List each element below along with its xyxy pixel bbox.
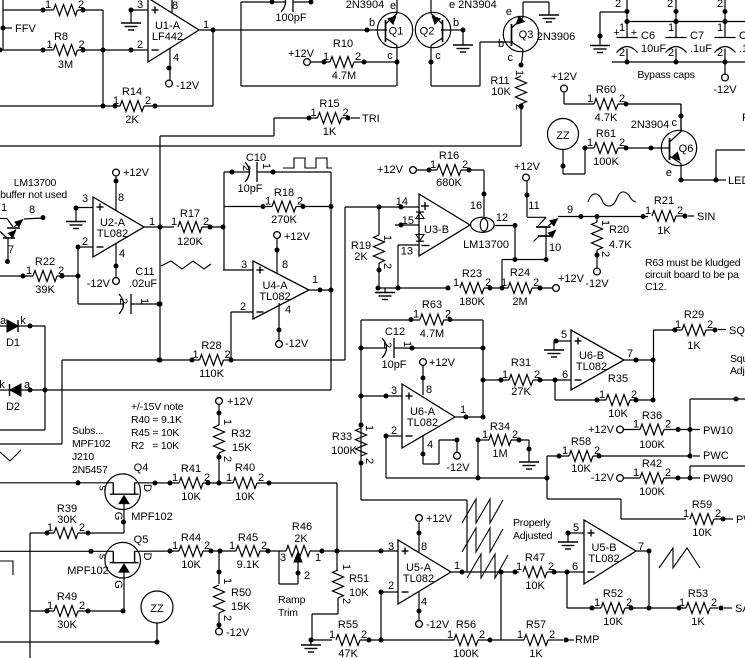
svg-text:2: 2 [615,0,621,10]
svg-text:2: 2 [137,39,143,51]
svg-text:4: 4 [119,248,125,260]
ground U1A [130,10,132,23]
svg-text:R10: R10 [333,38,353,50]
wire [224,206,272,208]
resistor R11 [516,76,527,104]
-12V terminal U5A [416,621,423,628]
svg-text:C11: C11 [135,266,154,278]
resistor R57 [524,635,548,646]
svg-text:R45 = 10K: R45 = 10K [131,427,179,439]
svg-text:1M: 1M [492,448,507,460]
wire U6A out [455,416,483,418]
svg-text:4: 4 [427,439,433,451]
svg-text:1K: 1K [529,648,543,658]
wire [431,85,480,87]
resistor R49 [54,606,78,617]
resistor R44 [179,546,203,557]
svg-text:R28: R28 [201,340,221,352]
svg-text:4: 4 [421,596,427,608]
svg-text:1K: 1K [691,616,705,628]
svg-text:2: 2 [363,458,375,464]
wire [203,482,233,484]
svg-text:180K: 180K [459,296,485,308]
wire [240,2,242,86]
bypass caps upper row stubs [626,0,628,38]
resistor R8 [54,45,78,56]
wire [311,61,331,63]
svg-text:a: a [0,315,7,327]
resistor R20 [592,222,603,250]
svg-text:R53: R53 [688,588,708,600]
svg-text:8: 8 [29,204,35,216]
wire node9 [558,216,648,218]
svg-text:Q6: Q6 [679,143,694,155]
svg-text:1: 1 [562,445,568,457]
svg-text:R36: R36 [642,410,662,422]
wire U5A out [451,571,519,573]
svg-text:3M: 3M [58,59,73,71]
-12V terminal [166,80,173,87]
resistor R32 [214,425,225,453]
svg-text:+12V: +12V [227,396,254,408]
svg-text:3: 3 [137,0,143,11]
wire [0,49,54,51]
resistor R22 [33,271,57,282]
svg-text:R46: R46 [292,521,312,533]
-12V terminal U4A [276,341,283,348]
resistor R42 [640,473,664,484]
svg-text:SIN: SIN [697,211,715,223]
svg-text:R23: R23 [462,268,482,280]
svg-text:R8: R8 [54,31,68,43]
svg-text:R20: R20 [609,224,629,236]
svg-text:.02uF: .02uF [129,278,157,290]
svg-text:7: 7 [8,244,14,256]
svg-text:120K: 120K [177,236,203,248]
svg-text:1: 1 [447,629,453,641]
diode D1 [0,325,7,327]
svg-text:c: c [435,50,441,62]
svg-text:2: 2 [388,580,394,592]
svg-text:2: 2 [240,165,252,171]
svg-text:100K: 100K [639,439,665,451]
wire [564,103,594,105]
wire PWC [547,455,569,457]
svg-text:1: 1 [381,235,393,241]
ZZ source 1 [548,119,579,150]
svg-text:1: 1 [45,0,51,11]
+12V terminal U2A [115,176,117,211]
svg-text:-12V: -12V [176,80,200,92]
svg-text:4: 4 [285,304,291,316]
svg-text:3: 3 [391,385,397,397]
svg-text:10K: 10K [692,527,712,539]
svg-text:b: b [369,17,375,29]
resistor R52 [601,603,625,614]
svg-text:1: 1 [1,202,7,214]
wire pin4 [418,591,420,621]
svg-text:SQR: SQR [729,325,745,337]
svg-text:R35: R35 [608,373,628,385]
svg-text:R24: R24 [510,267,530,279]
svg-text:Adjusted: Adjusted [513,530,553,542]
+12V terminal [304,59,311,66]
wire SQR [654,329,683,331]
svg-text:10pF: 10pF [237,183,262,195]
svg-text:2: 2 [381,342,393,348]
svg-text:R55: R55 [338,619,358,631]
svg-text:47K: 47K [338,648,358,658]
svg-text:2M: 2M [512,296,527,308]
sine glyph [588,192,636,206]
transistor Q5 JFET [105,542,141,578]
svg-text:1: 1 [363,425,375,431]
svg-text:C12: C12 [385,326,405,338]
svg-text:R40 = 9.1K: R40 = 9.1K [131,414,182,426]
diode internal 1 [416,211,424,213]
wire [202,226,224,228]
resistor R24 [508,283,532,294]
svg-text:2: 2 [479,629,485,641]
svg-text:-12V: -12V [226,627,250,639]
svg-text:R44: R44 [181,532,201,544]
resistor R46 trimmer [286,546,310,557]
wire [30,610,54,612]
svg-text:1: 1 [413,309,419,321]
wire TRI [274,117,318,119]
svg-text:680K: 680K [436,177,462,189]
op-amp U2-A [93,197,144,257]
svg-text:-12V: -12V [591,472,615,484]
wire PW90 [624,477,641,479]
svg-text:Q5: Q5 [134,534,149,546]
svg-text:2K: 2K [294,533,308,545]
glyph partial left [0,561,13,575]
svg-text:2: 2 [361,629,367,641]
svg-text:MPF102: MPF102 [131,511,173,523]
svg-text:2: 2 [355,51,361,63]
wire [478,439,489,441]
resistor R29 [682,325,706,336]
svg-text:Properly: Properly [513,517,551,529]
wire [0,550,113,552]
ground Q2 [462,30,464,45]
svg-text:6: 6 [572,561,578,573]
svg-text:9.1K: 9.1K [237,559,260,571]
svg-text:+12V: +12V [426,513,453,525]
transistor Q6 [661,130,696,165]
op-amp U5-A [398,540,451,604]
svg-text:U3-B: U3-B [424,224,449,236]
wire [62,359,200,361]
transistor Q2 [415,12,450,47]
resistor R15 [318,113,342,124]
wire R63 box [361,319,420,321]
svg-text:3: 3 [280,552,286,564]
wire pin5 [554,340,571,342]
resistor R19 [374,235,385,263]
svg-text:30K: 30K [57,619,77,631]
svg-text:2K: 2K [354,251,368,263]
svg-text:5: 5 [561,329,567,341]
svg-text:c: c [508,52,514,64]
wire SAW [710,607,718,609]
svg-text:2: 2 [240,301,246,313]
svg-text:2: 2 [549,629,555,641]
svg-text:10K: 10K [235,491,255,503]
svg-text:c: c [672,117,678,129]
resistor R63 [420,314,444,325]
capacitor C10 [224,171,250,173]
svg-text:2: 2 [707,319,713,331]
triangle glyph [161,261,211,269]
capacitor C7 [666,37,687,39]
wire pin3 [223,269,253,271]
wire pin4 [115,244,117,278]
svg-text:100pF: 100pF [275,12,306,24]
svg-text:2: 2 [665,467,671,479]
svg-text:100K: 100K [639,486,665,498]
node U1A output [211,28,216,33]
resistor R60 [594,99,618,110]
svg-text:2: 2 [221,456,233,462]
svg-text:2: 2 [79,522,85,534]
transistor Q4 JFET [105,474,141,510]
saw glyph [659,548,700,568]
svg-text:R61: R61 [596,128,616,140]
svg-text:R49: R49 [57,591,77,603]
ground rail U3B [378,287,448,289]
svg-text:100K: 100K [331,445,357,457]
+12V terminal R32 [216,398,223,405]
diode internal 2 [416,235,424,241]
svg-text:e 2N3904: e 2N3904 [449,0,497,11]
svg-text:11: 11 [528,200,539,212]
svg-text:-12V: -12V [585,278,609,290]
svg-text:10K: 10K [603,616,623,628]
svg-text:39K: 39K [35,284,55,296]
wire U4A out [309,289,331,291]
glyph partial [0,450,21,461]
svg-text:R47: R47 [525,552,545,564]
svg-text:1: 1 [26,265,32,277]
resistor R41 [179,478,203,489]
wire SIN [676,215,685,217]
op-amp U3-B LM13700 [419,194,470,256]
resistor R47 [523,567,547,578]
svg-text:G: G [112,580,124,589]
svg-text:1: 1 [229,540,235,552]
svg-text:10uF: 10uF [641,43,666,55]
svg-text:R50: R50 [231,587,251,599]
wire [417,169,438,171]
svg-text:2: 2 [82,236,88,248]
wire pin8 [171,0,173,13]
wire rail [627,21,745,23]
wire [30,532,54,534]
svg-text:R41: R41 [181,463,201,475]
wire [0,482,113,484]
wire R59 feed [547,498,621,500]
svg-text:2: 2 [717,0,723,10]
-12V terminal R50 [216,628,223,635]
svg-text:1: 1 [401,341,413,347]
svg-text:.1: .1 [739,43,745,55]
svg-text:10K: 10K [491,86,511,98]
wire pin2 [381,591,398,593]
svg-text:2: 2 [221,615,233,621]
svg-text:R18: R18 [274,187,294,199]
svg-text:3: 3 [241,259,247,271]
svg-text:PW: PW [736,514,745,526]
svg-text:10K: 10K [571,463,591,475]
svg-text:s: s [97,485,109,491]
resistor R33 [356,428,367,456]
svg-text:2: 2 [715,508,721,520]
svg-text:R14: R14 [122,86,142,98]
svg-text:R33: R33 [332,431,352,443]
svg-text:1: 1 [172,540,178,552]
resistor R45 [236,546,260,557]
svg-text:27K: 27K [511,386,531,398]
-12V terminal [594,268,601,275]
svg-text:4.7K: 4.7K [609,239,632,251]
svg-text:MPF102: MPF102 [72,438,111,450]
svg-text:6: 6 [562,369,568,381]
ground rail bottom [310,640,312,645]
svg-text:1: 1 [226,472,232,484]
svg-text:Ramp: Ramp [278,594,306,606]
resistor R61 [594,143,618,154]
wire [361,499,467,501]
svg-text:8: 8 [172,0,178,12]
node FFV [1,26,6,31]
resistor R56 [454,635,478,646]
svg-text:e: e [506,6,512,18]
svg-text:1: 1 [453,277,459,289]
svg-text:12: 12 [496,212,508,224]
wire pin6 U5B [547,571,584,573]
svg-text:D1: D1 [6,337,20,349]
svg-text:2: 2 [711,597,717,609]
svg-text:15K: 15K [232,442,252,454]
wire pin13 [398,244,419,246]
wire pin3 [131,9,148,11]
svg-text:1: 1 [482,429,488,441]
svg-text:R51: R51 [349,573,369,585]
-12V terminal [724,62,726,74]
wire [61,360,63,444]
svg-text:Q2: Q2 [420,26,435,38]
resistor R16 [437,165,461,176]
svg-text:SA: SA [735,603,745,615]
svg-text:R58: R58 [571,436,591,448]
svg-text:8: 8 [421,541,427,553]
svg-text:e: e [666,167,672,179]
svg-text:R15: R15 [319,98,339,110]
svg-text:k: k [20,315,26,327]
wire [3,9,54,11]
resistor R32 [218,405,220,426]
svg-text:R60: R60 [596,84,616,96]
svg-text:15K: 15K [231,601,251,613]
wire pin4 [422,435,424,464]
svg-text:Adjus: Adjus [730,365,745,377]
svg-text:ZZ: ZZ [150,603,164,615]
svg-text:R56: R56 [456,619,476,631]
svg-text:4: 4 [173,52,179,64]
transistor Q3 [503,16,538,51]
resistor R23 [460,283,484,294]
resistor R14 [120,101,144,112]
resistor R51 [333,570,344,598]
wire feedback rail [386,477,547,479]
svg-text:D: D [141,484,153,492]
svg-text:4.7K: 4.7K [595,112,618,124]
svg-text:LED: LED [728,175,745,187]
+12V terminal [553,285,560,292]
wire [520,104,522,146]
wire Q2 base [441,29,463,31]
svg-text:c: c [387,50,393,62]
wire [199,29,387,31]
svg-text:2N5457: 2N5457 [72,464,108,476]
svg-text:1: 1 [221,419,233,425]
svg-text:9: 9 [567,204,573,216]
svg-text:1: 1 [460,404,466,416]
ground U6B [553,341,555,350]
svg-text:TL082: TL082 [576,361,607,373]
svg-text:1: 1 [517,629,523,641]
svg-text:+12V: +12V [377,164,404,176]
ground bypass [590,45,610,47]
svg-text:s: s [97,554,109,560]
op-amp U1-A [148,0,199,62]
resistor R39 [54,528,78,539]
-12V terminal U6A [454,452,461,459]
svg-text:R45: R45 [238,532,258,544]
svg-text:LM13700: LM13700 [14,177,57,189]
resistor R18 [272,201,296,212]
+12V terminal U6A [422,366,424,396]
svg-text:R57: R57 [526,619,546,631]
ground U2A [75,208,77,222]
svg-text:1: 1 [599,389,605,401]
svg-text:D2: D2 [6,401,20,413]
svg-text:+12V: +12V [123,167,150,179]
svg-text:1: 1 [668,22,674,34]
svg-text:16: 16 [470,200,482,212]
svg-text:TL082: TL082 [588,553,619,565]
op-amp U6-A [402,384,455,448]
svg-text:10K: 10K [181,559,201,571]
svg-text:2: 2 [117,298,129,304]
op-amp U6-B [571,330,624,390]
svg-text:MPF102: MPF102 [67,565,109,577]
svg-text:+/-15V note: +/-15V note [131,401,184,413]
svg-text:+12V: +12V [429,357,456,369]
wire pin5 [568,532,584,534]
svg-text:1: 1 [513,70,525,76]
wire rail2 [612,61,745,63]
svg-text:1: 1 [260,163,272,169]
wire LED [681,179,716,181]
svg-text:2: 2 [340,598,352,604]
resistor R58 [569,451,593,462]
svg-text:1: 1 [683,508,689,520]
resistor R40 [233,478,257,489]
svg-text:Subs...: Subs... [72,425,103,437]
